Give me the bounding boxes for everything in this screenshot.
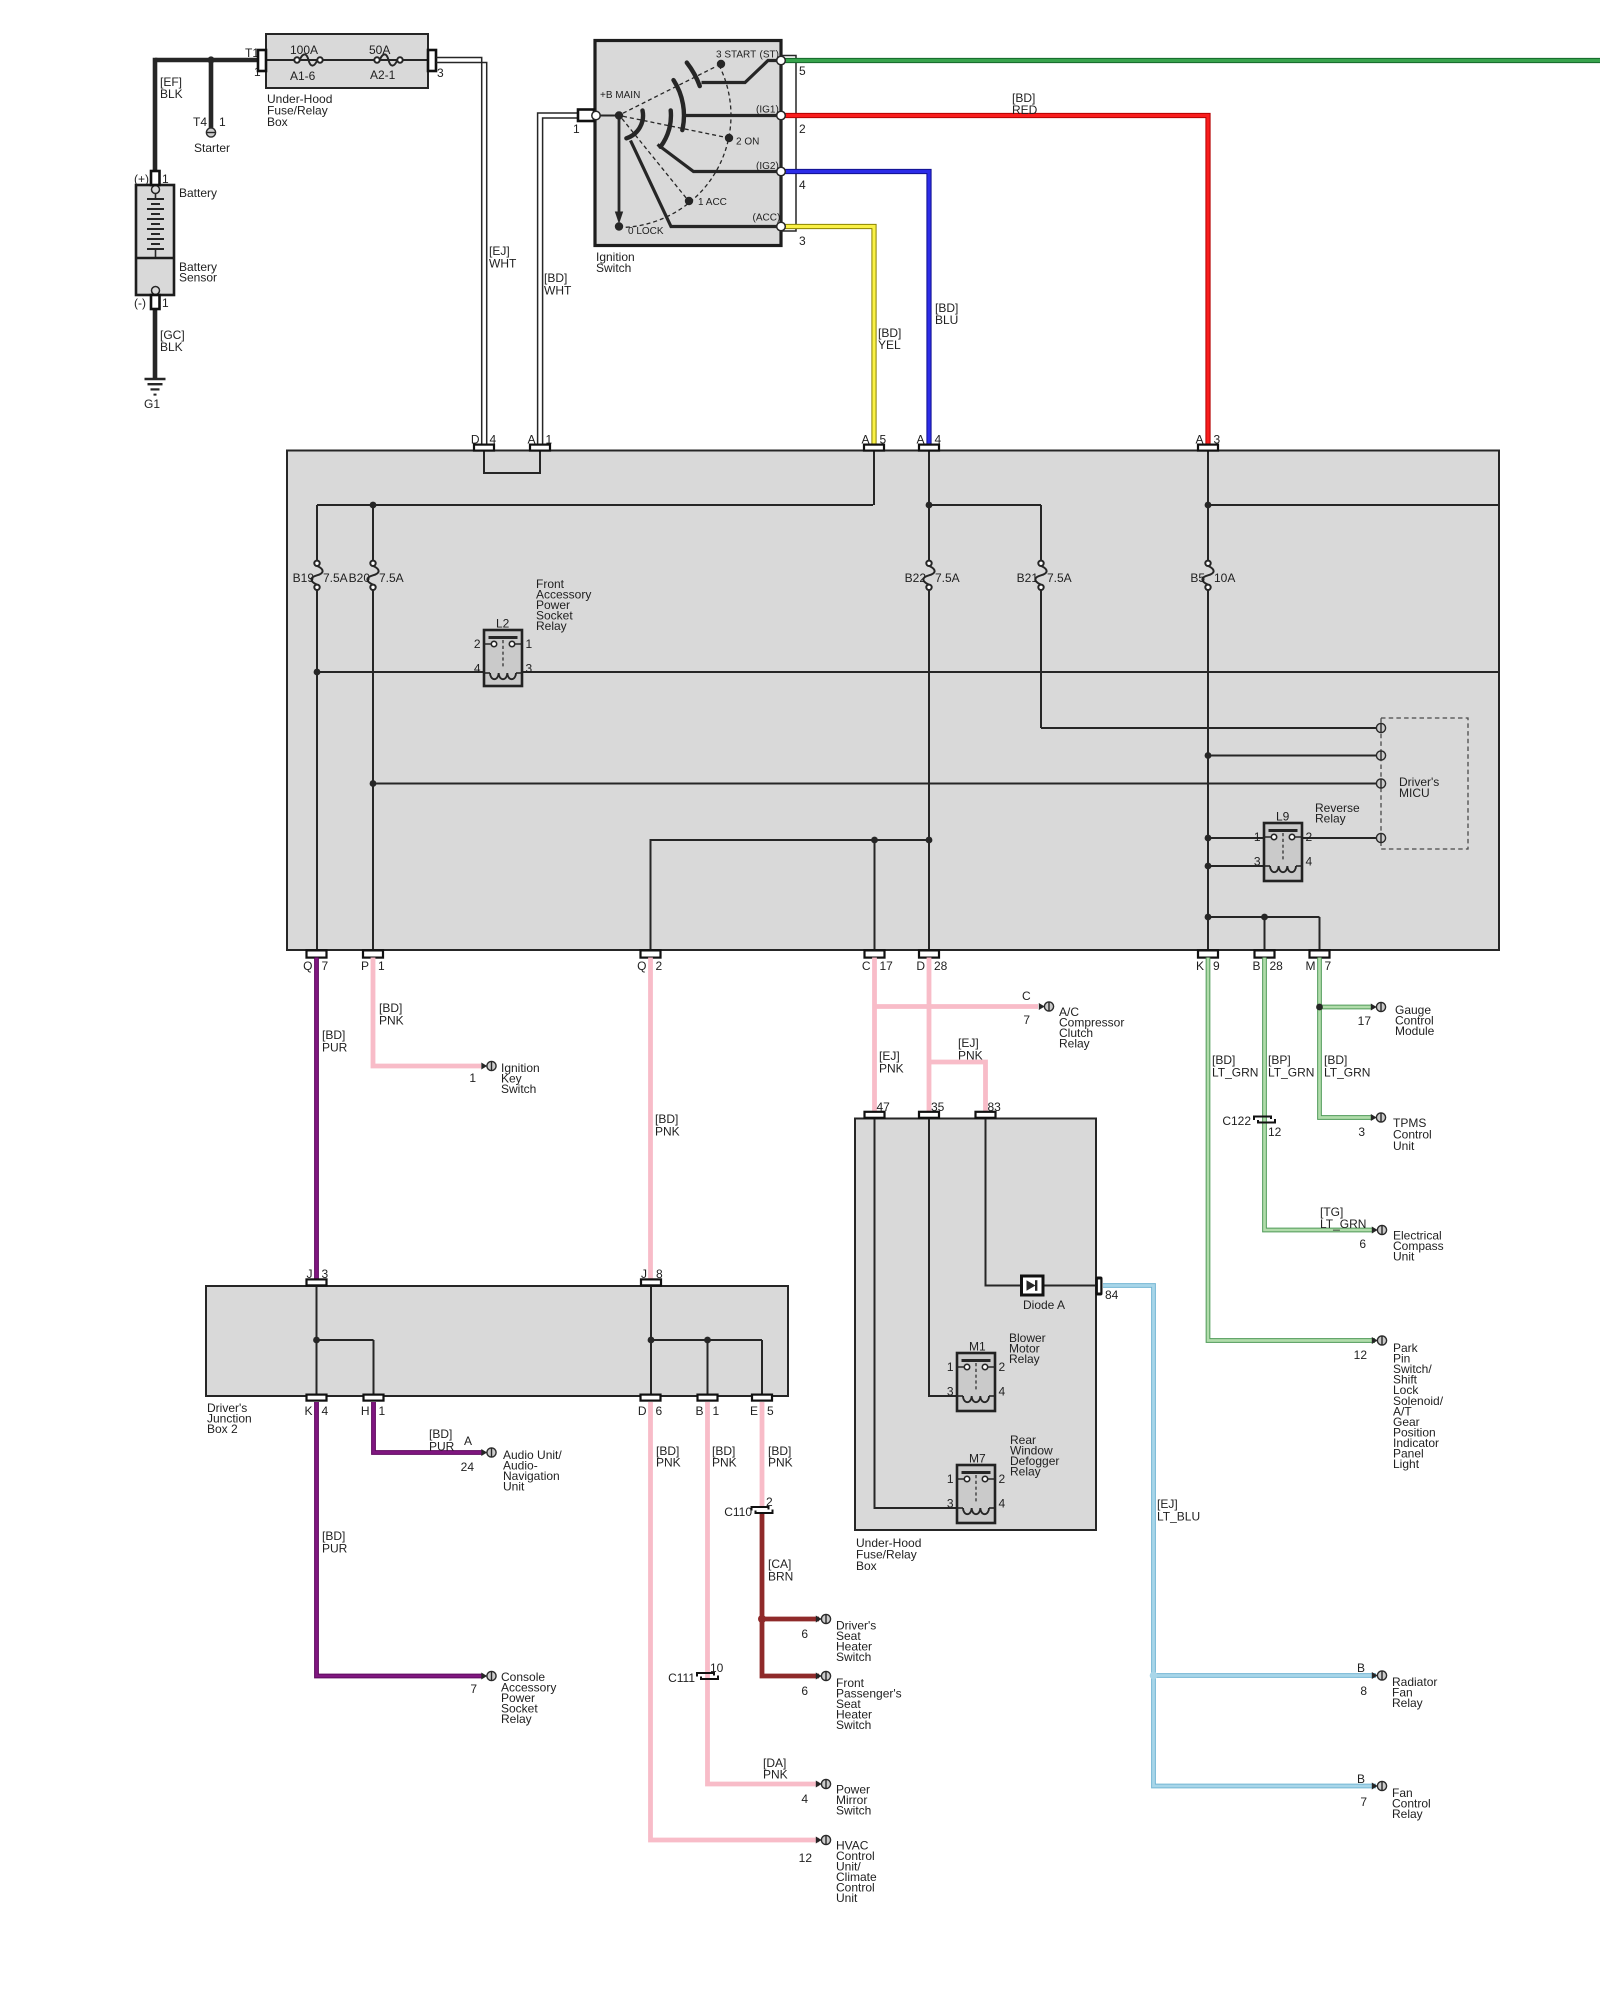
svg-text:BLU: BLU — [935, 313, 958, 327]
svg-text:17: 17 — [880, 959, 894, 973]
svg-text:B: B — [1357, 1661, 1365, 1675]
svg-text:B19: B19 — [293, 571, 315, 585]
svg-text:5: 5 — [880, 433, 887, 447]
svg-text:PNK: PNK — [712, 1456, 737, 1470]
svg-text:Switch: Switch — [836, 1804, 871, 1818]
svg-text:10A: 10A — [1214, 571, 1235, 585]
svg-text:24: 24 — [461, 1460, 475, 1474]
svg-text:Starter: Starter — [194, 141, 230, 155]
svg-text:D: D — [916, 959, 925, 973]
svg-text:8: 8 — [1360, 1684, 1367, 1698]
svg-text:Relay: Relay — [536, 619, 567, 633]
svg-text:+B MAIN: +B MAIN — [600, 90, 640, 101]
svg-text:Box 2: Box 2 — [207, 1422, 238, 1436]
svg-text:Sensor: Sensor — [179, 271, 217, 285]
svg-text:YEL: YEL — [878, 338, 901, 352]
svg-text:B20: B20 — [349, 571, 371, 585]
svg-text:Unit: Unit — [836, 1891, 858, 1905]
svg-text:M: M — [1306, 959, 1316, 973]
svg-text:1 ACC: 1 ACC — [698, 197, 727, 208]
svg-text:Relay: Relay — [1009, 1352, 1040, 1366]
svg-text:E: E — [750, 1404, 758, 1418]
svg-text:2: 2 — [999, 1360, 1006, 1374]
svg-text:2: 2 — [799, 122, 806, 136]
svg-text:PNK: PNK — [768, 1456, 793, 1470]
svg-text:2: 2 — [766, 1495, 773, 1509]
svg-text:1: 1 — [219, 115, 226, 129]
svg-text:3: 3 — [437, 66, 444, 80]
svg-text:WHT: WHT — [489, 257, 517, 271]
svg-text:2: 2 — [1306, 830, 1313, 844]
svg-text:4: 4 — [999, 1385, 1006, 1399]
svg-text:C111: C111 — [668, 1671, 695, 1685]
svg-text:C: C — [862, 959, 871, 973]
svg-text:Module: Module — [1395, 1024, 1435, 1038]
svg-text:(-): (-) — [134, 296, 146, 310]
svg-text:2: 2 — [474, 637, 481, 651]
svg-text:B: B — [1252, 959, 1260, 973]
svg-text:P: P — [361, 959, 369, 973]
svg-text:Relay: Relay — [1315, 812, 1346, 826]
svg-text:7: 7 — [322, 959, 329, 973]
svg-text:PNK: PNK — [763, 1768, 788, 1782]
svg-text:(ACC): (ACC) — [753, 213, 781, 224]
svg-text:1: 1 — [947, 1472, 954, 1486]
svg-text:Switch: Switch — [596, 261, 631, 275]
svg-text:4: 4 — [474, 662, 481, 676]
svg-text:Battery: Battery — [179, 186, 217, 200]
svg-text:1: 1 — [162, 172, 169, 186]
svg-text:C110: C110 — [724, 1505, 752, 1519]
svg-text:7: 7 — [1360, 1795, 1367, 1809]
svg-text:B22: B22 — [905, 571, 927, 585]
svg-text:LT_GRN: LT_GRN — [1320, 1217, 1366, 1231]
svg-text:LT_BLU: LT_BLU — [1157, 1509, 1200, 1523]
svg-text:2 ON: 2 ON — [736, 137, 759, 148]
svg-text:6: 6 — [801, 1684, 808, 1698]
svg-text:1: 1 — [713, 1404, 720, 1418]
svg-text:3: 3 — [1254, 855, 1261, 869]
svg-text:4: 4 — [1306, 855, 1313, 869]
svg-text:(ST): (ST) — [760, 50, 779, 61]
svg-text:5: 5 — [767, 1404, 774, 1418]
svg-text:Diode A: Diode A — [1023, 1298, 1065, 1312]
svg-text:PNK: PNK — [879, 1061, 904, 1075]
svg-text:Relay: Relay — [501, 1712, 532, 1726]
svg-text:A1-6: A1-6 — [290, 69, 316, 83]
svg-text:4: 4 — [935, 433, 942, 447]
svg-text:PNK: PNK — [379, 1013, 404, 1027]
svg-text:7.5A: 7.5A — [935, 571, 960, 585]
svg-text:6: 6 — [656, 1404, 663, 1418]
svg-text:LT_GRN: LT_GRN — [1324, 1065, 1370, 1079]
svg-text:1: 1 — [573, 122, 580, 136]
svg-text:4: 4 — [999, 1497, 1006, 1511]
svg-text:84: 84 — [1105, 1288, 1119, 1302]
svg-text:K: K — [304, 1404, 312, 1418]
svg-text:3: 3 — [1358, 1125, 1365, 1139]
svg-text:K: K — [1196, 959, 1204, 973]
svg-text:G1: G1 — [144, 397, 160, 411]
svg-text:12: 12 — [799, 1851, 813, 1865]
svg-text:RED: RED — [1012, 103, 1038, 117]
svg-text:1: 1 — [379, 1404, 386, 1418]
svg-text:28: 28 — [1270, 959, 1284, 973]
svg-text:Relay: Relay — [1392, 1696, 1423, 1710]
svg-text:6: 6 — [801, 1627, 808, 1641]
svg-text:Relay: Relay — [1010, 1465, 1041, 1479]
svg-text:12: 12 — [1268, 1125, 1282, 1139]
svg-text:Box: Box — [856, 1559, 877, 1573]
svg-text:Light: Light — [1393, 1457, 1420, 1471]
svg-text:6: 6 — [1359, 1237, 1366, 1251]
svg-text:1: 1 — [1254, 830, 1261, 844]
svg-text:4: 4 — [322, 1404, 329, 1418]
svg-text:4: 4 — [799, 178, 806, 192]
svg-text:17: 17 — [1358, 1014, 1372, 1028]
svg-text:3: 3 — [322, 1267, 329, 1281]
svg-text:L9: L9 — [1276, 810, 1290, 824]
svg-text:C: C — [1022, 989, 1031, 1003]
svg-text:LT_GRN: LT_GRN — [1268, 1065, 1314, 1079]
svg-text:8: 8 — [656, 1267, 663, 1281]
svg-text:WHT: WHT — [544, 284, 572, 298]
svg-text:28: 28 — [934, 959, 948, 973]
svg-text:Relay: Relay — [1059, 1037, 1090, 1051]
svg-text:A: A — [1195, 433, 1203, 447]
svg-text:Switch: Switch — [836, 1650, 871, 1664]
svg-text:(+): (+) — [134, 172, 149, 186]
svg-text:PNK: PNK — [958, 1048, 983, 1062]
svg-text:1: 1 — [546, 433, 553, 447]
svg-text:A: A — [861, 433, 869, 447]
svg-text:L2: L2 — [496, 617, 510, 631]
svg-text:Unit: Unit — [503, 1480, 525, 1494]
svg-text:J: J — [307, 1267, 313, 1281]
svg-text:7.5A: 7.5A — [379, 571, 404, 585]
svg-text:A: A — [464, 1434, 472, 1448]
svg-text:BLK: BLK — [160, 340, 183, 354]
svg-text:C122: C122 — [1222, 1114, 1251, 1128]
svg-text:3: 3 — [947, 1385, 954, 1399]
svg-text:1: 1 — [469, 1071, 476, 1085]
svg-text:1: 1 — [947, 1360, 954, 1374]
svg-text:BLK: BLK — [160, 87, 183, 101]
svg-text:B5: B5 — [1190, 571, 1205, 585]
svg-text:Box: Box — [267, 115, 288, 129]
svg-text:3: 3 — [947, 1497, 954, 1511]
svg-text:B21: B21 — [1017, 571, 1039, 585]
svg-text:50A: 50A — [369, 43, 390, 57]
svg-text:D: D — [638, 1404, 647, 1418]
svg-text:3: 3 — [526, 662, 533, 676]
svg-text:B: B — [695, 1404, 703, 1418]
svg-text:(IG1): (IG1) — [756, 105, 779, 116]
svg-text:MICU: MICU — [1399, 786, 1430, 800]
svg-text:7.5A: 7.5A — [323, 571, 348, 585]
svg-text:LT_GRN: LT_GRN — [1212, 1065, 1258, 1079]
svg-text:5: 5 — [799, 64, 806, 78]
svg-text:Q: Q — [303, 959, 312, 973]
svg-text:4: 4 — [490, 433, 497, 447]
svg-text:M1: M1 — [969, 1340, 986, 1354]
svg-text:3: 3 — [1214, 433, 1221, 447]
svg-text:1: 1 — [162, 296, 169, 310]
svg-text:7: 7 — [470, 1682, 477, 1696]
svg-text:1: 1 — [526, 637, 533, 651]
svg-text:PNK: PNK — [655, 1124, 680, 1138]
svg-text:A: A — [916, 433, 924, 447]
svg-text:83: 83 — [988, 1100, 1002, 1114]
svg-text:D: D — [471, 433, 480, 447]
svg-text:3: 3 — [799, 234, 806, 248]
svg-text:(IG2): (IG2) — [756, 161, 779, 172]
svg-text:7.5A: 7.5A — [1047, 571, 1072, 585]
svg-text:M7: M7 — [969, 1452, 986, 1466]
svg-text:Switch: Switch — [836, 1718, 871, 1732]
svg-text:Unit: Unit — [1393, 1139, 1415, 1153]
svg-text:9: 9 — [1213, 959, 1220, 973]
svg-text:Unit: Unit — [1393, 1250, 1415, 1264]
svg-text:J: J — [641, 1267, 647, 1281]
svg-text:12: 12 — [1354, 1348, 1368, 1362]
svg-text:B: B — [1357, 1772, 1365, 1786]
svg-text:7: 7 — [1325, 959, 1332, 973]
svg-text:10: 10 — [710, 1661, 724, 1675]
svg-text:PUR: PUR — [322, 1040, 348, 1054]
svg-text:3 START: 3 START — [716, 50, 756, 61]
svg-text:35: 35 — [931, 1100, 945, 1114]
svg-text:7: 7 — [1023, 1013, 1030, 1027]
svg-text:100A: 100A — [290, 43, 318, 57]
svg-text:PUR: PUR — [429, 1439, 455, 1453]
svg-text:Switch: Switch — [501, 1082, 536, 1096]
svg-text:4: 4 — [801, 1792, 808, 1806]
svg-text:A2-1: A2-1 — [370, 68, 396, 82]
svg-text:H: H — [361, 1404, 370, 1418]
svg-text:PUR: PUR — [322, 1541, 348, 1555]
svg-text:T4: T4 — [193, 115, 207, 129]
svg-text:A: A — [527, 433, 535, 447]
svg-text:Q: Q — [637, 959, 646, 973]
svg-text:47: 47 — [877, 1100, 891, 1114]
svg-text:0 LOCK: 0 LOCK — [628, 226, 664, 237]
svg-text:1: 1 — [378, 959, 385, 973]
svg-text:PNK: PNK — [656, 1456, 681, 1470]
svg-text:2: 2 — [656, 959, 663, 973]
svg-text:2: 2 — [999, 1472, 1006, 1486]
svg-text:Relay: Relay — [1392, 1807, 1423, 1821]
svg-text:BRN: BRN — [768, 1569, 793, 1583]
